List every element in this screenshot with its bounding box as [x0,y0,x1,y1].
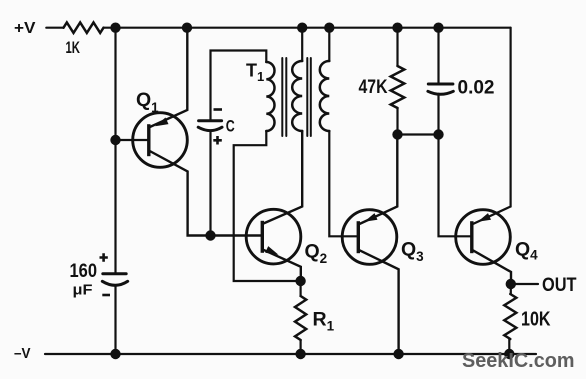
label plus of cap 160 [100,253,108,261]
node top rail / T1 winding C [324,23,334,33]
resistor R1 [295,296,306,340]
svg-text:0.02: 0.02 [458,76,495,98]
node -V rail / 10K [504,349,514,359]
transistor Q3 circle [342,210,397,265]
transistor Q1 base bar [147,124,150,156]
svg-text:1K: 1K [66,39,81,57]
transistor Q4 circle [456,210,511,265]
wire R1 bottom to -V [300,340,302,354]
transistor Q1 emitter arrow [155,118,168,127]
svg-text:–V: –V [14,345,31,362]
wire Q1 emitter up to +V [149,28,188,128]
transistor Q3 emitter arrow [364,213,377,222]
transistor Q2 circle [246,209,301,264]
wire 47K bottom to junction [396,108,398,135]
svg-text:10K: 10K [521,309,551,331]
transformer T1 winding C (right) [320,61,329,131]
wire junction to Q3 emitter [358,135,397,225]
wire T1 winding B bottom to Q2 collector [262,131,302,224]
transformer T1 winding A (left/primary) [266,62,274,131]
wire junction bar 47K to 0.02 [398,133,439,135]
transistor Q2 emitter arrow [265,246,278,255]
node 47K bottom [392,129,402,139]
wire 47K top [396,28,398,66]
capacitor 160uF [102,274,127,286]
node top rail / 0.02 [433,23,443,33]
wire T1 winding A bottom to Q2 emitter node [234,131,301,281]
node cap C / Q2 base [205,230,215,240]
svg-text:+V: +V [14,20,36,37]
transistor Q4 emitter arrow [478,213,491,222]
wire +V rail left segment [46,27,63,29]
label plus of cap C [213,136,222,145]
svg-text:OUT: OUT [542,275,577,296]
wire Q2 emitter down to node [262,249,301,281]
transistor Q1 circle [133,113,188,168]
svg-text:160: 160 [70,261,98,282]
wire junction down to Q4 base [439,135,472,237]
label minus of cap C [214,108,223,111]
label minus of cap 160 [102,294,110,297]
transformer T1 core 1 [282,58,286,136]
node Q2 emitter / R1 [295,276,305,286]
wire T1 winding C top to rail [328,28,330,61]
wire left branch lower [114,286,116,355]
node -V rail / Q3 collector [393,349,403,359]
wire Q3 collector to -V [358,250,398,354]
transformer T1 core 2 [307,58,311,136]
wire Q1 collector down and right to Q2 base [149,151,262,236]
node top rail / Q1 emitter [182,23,192,33]
transistor Q2 base bar [261,221,264,253]
wire right edge down to Q4 emitter [472,28,511,225]
transformer T1 winding B (middle) [292,61,302,131]
wire 10K bottom to -V [508,339,510,354]
node -V rail / R1 [295,349,305,359]
capacitor 0.02 [428,84,453,94]
transistor Q4 base bar [470,221,473,253]
wire Q4 collector to OUT node [472,250,511,284]
wire OUT node to 10K [510,284,512,294]
wire Q1 base from left branch [116,139,149,141]
svg-text:47K: 47K [359,77,388,98]
wire -V rail [45,353,536,355]
node top rail / left branch [110,23,120,33]
wire 0.02 bottom to junction [437,94,439,135]
resistor 10K [504,294,516,339]
transistor Q3 base bar [357,221,360,253]
wire 0.02 top [437,28,439,84]
wire left branch upper [114,28,116,273]
node OUT [506,279,516,289]
node top rail / 47K [392,23,402,33]
node Q1 base [110,135,120,145]
svg-text:μF: μF [73,283,93,299]
wire T1 winding B top to rail [301,28,303,61]
svg-text:C: C [226,117,235,135]
wire T1 winding C bottom to Q3 base [329,131,358,236]
svg-text:SeekIC.com: SeekIC.com [462,349,575,372]
resistor 1K [64,23,104,33]
node -V rail / left branch [110,349,120,359]
wire +V rail main [104,27,511,29]
wire cap C top lead and top jog to T1 [211,51,267,236]
capacitor C [198,121,222,131]
node top rail / T1 winding B [297,23,307,33]
wire node to R1 top [300,281,302,296]
wire OUT stub [511,283,538,285]
resistor 47K [391,66,405,108]
node 0.02 bottom [433,129,443,139]
